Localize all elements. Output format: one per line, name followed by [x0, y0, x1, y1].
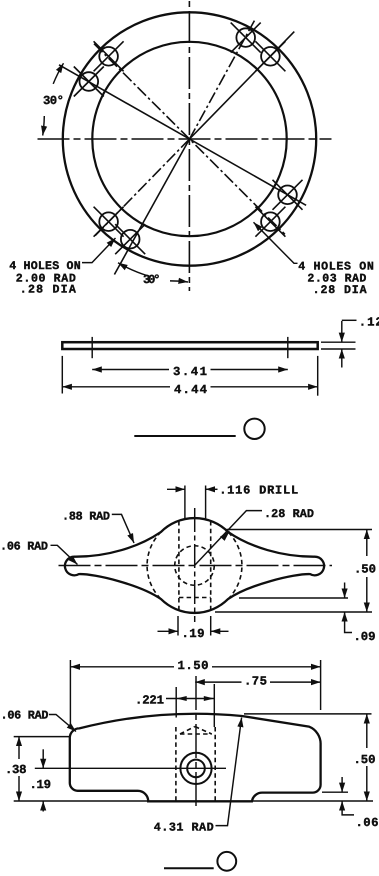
hole B3 (240deg)	[115, 224, 145, 254]
.50 dimension lower segment	[366, 766, 368, 801]
.116 right arrow	[206, 488, 218, 490]
side view bar outline	[62, 342, 317, 349]
radial line solid 150-330deg	[59, 65, 306, 206]
.06 RAD leader	[49, 715, 76, 732]
svg-text:.06 RAD: .06 RAD	[1, 709, 49, 723]
radial centerline dash-dot 135-315deg	[94, 44, 285, 235]
hole A4 (315deg)	[255, 207, 285, 237]
.221 left extension line	[175, 687, 177, 718]
bottom 30deg dimension arc left segment with arrow	[118, 263, 148, 276]
.88 RAD leader	[112, 514, 134, 543]
hidden boss circle dashed left arc	[147, 532, 161, 599]
hidden boss right edge dashed	[214, 727, 216, 801]
outer circle (flange outside dia)	[63, 12, 316, 265]
.221 dimension line	[166, 698, 214, 700]
.50 dimension lower segment	[366, 577, 368, 612]
svg-text:.221: .221	[135, 693, 164, 707]
.116 left arrow	[167, 488, 185, 490]
.12 elbow leader	[342, 319, 357, 321]
.116 left extension line	[184, 486, 186, 520]
.221 left arrowhead	[176, 696, 187, 701]
hole vertical centerline	[195, 676, 197, 810]
.38 dimension upper segment	[18, 737, 20, 759]
.50 dimension upper segment	[366, 714, 368, 748]
left label leader	[82, 238, 116, 263]
.19 upper arrow	[42, 749, 44, 768]
left 30deg dimension arc upper segment with arrow	[53, 63, 63, 84]
.50 top extension line	[227, 529, 373, 531]
hidden boss left edge dashed	[175, 727, 177, 801]
.06 RAD leader	[51, 545, 78, 564]
hidden small circle dashed	[175, 546, 215, 586]
.19 lower arrow	[42, 801, 44, 812]
svg-text:.28 RAD: .28 RAD	[264, 507, 314, 521]
1.50 left extension line	[69, 660, 71, 728]
1.50 right extension line	[320, 660, 322, 710]
.06 lower arrow with elbow	[342, 801, 354, 815]
view marker line	[134, 435, 235, 437]
4.44 left extension line	[61, 356, 63, 394]
.19 right arrow	[211, 630, 229, 632]
svg-text:.09: .09	[354, 630, 376, 644]
svg-text:.12: .12	[359, 315, 379, 329]
1.50 dimension right segment	[212, 666, 321, 668]
bottom 30deg dimension arc right segment with arrow	[170, 281, 188, 282]
hole horizontal centerline (and .19 extension)	[35, 767, 226, 769]
horizontal centerline	[38, 138, 332, 140]
radial centerline dash-dot 226deg	[94, 139, 189, 237]
svg-text:3.41: 3.41	[173, 365, 207, 379]
svg-text:.28 DIA: .28 DIA	[313, 284, 367, 297]
svg-text:.50: .50	[354, 753, 376, 767]
inner circle (3.41 bolt face dia)	[92, 42, 286, 236]
front view outline	[70, 714, 321, 802]
.12 upper extension line	[321, 341, 356, 343]
svg-text:4.44: 4.44	[174, 383, 208, 397]
svg-text:4.31 RAD: 4.31 RAD	[154, 821, 214, 835]
svg-text:.88 RAD: .88 RAD	[62, 509, 110, 523]
svg-text:.50: .50	[354, 563, 376, 577]
vertical centerline	[188, 1, 190, 291]
hole A3 (225deg)	[94, 207, 124, 237]
4.44 dimension line right segment	[211, 386, 318, 388]
svg-text:.75: .75	[244, 675, 267, 689]
bottom long extension line	[14, 800, 373, 802]
.116 right extension line	[205, 486, 207, 520]
.12 lower extension line	[321, 348, 356, 350]
bottom view marker line	[164, 867, 214, 869]
radial line solid 241deg	[114, 139, 189, 275]
hidden boss circle dashed right arc	[228, 532, 242, 599]
hidden drill base dashed	[180, 733, 212, 735]
hole B2 (150deg)	[74, 67, 104, 97]
svg-text:.38: .38	[5, 763, 27, 777]
hidden drill point cone right dashed	[195, 727, 212, 735]
horizontal centerline	[59, 565, 333, 567]
3.41 left extension line	[91, 337, 93, 358]
.50 dimension upper segment	[366, 530, 368, 557]
.19 left extension line	[177, 616, 179, 636]
svg-text:.06: .06	[356, 816, 379, 830]
.09 upper extension line	[239, 597, 348, 599]
.09 lower arrow with elbow	[345, 612, 352, 633]
bottom view marker circle	[217, 852, 236, 871]
svg-text:.116 DRILL: .116 DRILL	[219, 484, 298, 498]
.19 left arrow	[158, 630, 179, 632]
hole A2 (135deg)	[94, 41, 124, 71]
1.50 dimension left segment	[70, 666, 174, 668]
.19 right extension line	[210, 616, 212, 636]
.12 upper arrow	[341, 321, 343, 342]
.221 right extension line	[213, 684, 215, 727]
.38 top extension line	[14, 736, 70, 738]
svg-text:.06 RAD: .06 RAD	[0, 539, 48, 553]
hidden slot left edge dashed	[178, 521, 180, 612]
.09 upper arrow	[344, 583, 346, 599]
.50 top extension line	[244, 713, 372, 715]
.06 upper arrow	[341, 777, 343, 792]
svg-text:1.50: 1.50	[178, 659, 209, 673]
.75 dimension right segment	[270, 681, 321, 683]
svg-text:30°: 30°	[143, 273, 161, 287]
.38 dimension lower segment	[18, 776, 20, 801]
hole A1 (45deg, 2.00 rad set)	[255, 41, 285, 71]
radial line solid 46deg	[190, 32, 295, 139]
left 30deg dimension arc lower segment with arrow	[43, 116, 45, 136]
svg-text:.28 DIA: .28 DIA	[20, 284, 76, 297]
3.41 dimension line right segment	[211, 369, 288, 371]
.28 RAD leader arrowhead	[220, 531, 230, 541]
right label leader	[254, 222, 298, 263]
hidden drill point cone left dashed	[180, 727, 195, 735]
.12 lower arrow	[341, 349, 343, 368]
hole B1 (61deg, 2.03 rad set)	[231, 23, 261, 53]
drill hole circle	[187, 760, 205, 778]
.75 dimension left segment	[195, 681, 241, 683]
4.44 right extension line	[317, 356, 319, 396]
3.41 dimension line left segment	[92, 369, 169, 371]
3.41 right extension line	[287, 337, 289, 358]
radial centerline dash-dot 61deg	[190, 21, 255, 140]
.28 RAD leader line to center	[195, 511, 263, 566]
bottom extension line	[215, 611, 372, 613]
right bottom extension line	[322, 791, 348, 793]
svg-text:.19: .19	[182, 627, 205, 641]
hidden slot top edge dashed	[179, 597, 211, 599]
.221 right arrowhead	[204, 696, 215, 701]
plan view outline (wings + center boss)	[65, 518, 324, 613]
4.44 dimension line left segment	[62, 386, 170, 388]
hidden slot right edge dashed	[210, 521, 212, 612]
4.31 RAD leader	[216, 718, 242, 826]
view marker circle	[244, 419, 264, 439]
boss outer circle	[180, 753, 211, 784]
hole B4 (330deg)	[273, 180, 303, 210]
svg-text:30°: 30°	[43, 94, 64, 108]
vertical centerline	[194, 508, 196, 622]
svg-text:.19: .19	[30, 778, 52, 792]
svg-text:4 HOLES ON: 4 HOLES ON	[9, 260, 81, 273]
